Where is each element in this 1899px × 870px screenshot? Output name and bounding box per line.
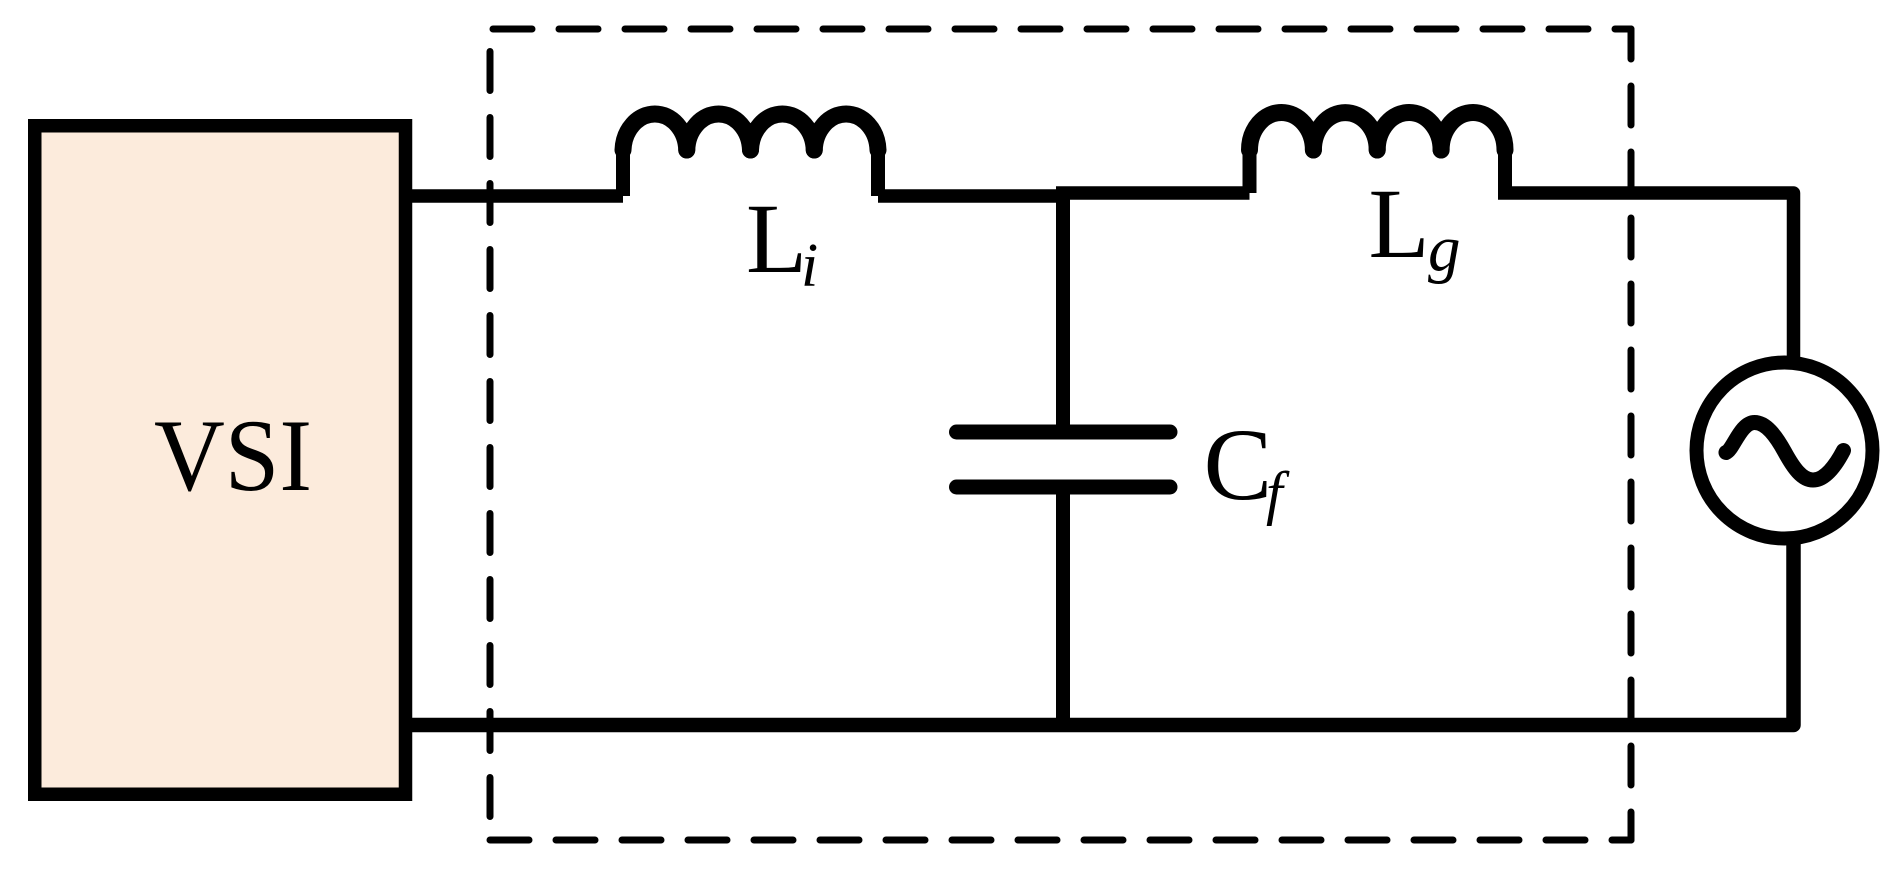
svg-text:i: i [801, 232, 818, 300]
svg-text:L: L [1369, 168, 1430, 279]
capacitor Cf bottom plate [957, 480, 1171, 495]
VSI box [35, 126, 406, 795]
wire: bottom rail from VSI to grid source [402, 538, 1794, 725]
inductor Lg humps [1250, 112, 1314, 150]
AC source sine symbol [1726, 423, 1844, 481]
inductor Lg right riser [1498, 150, 1512, 193]
dashed filter boundary box (bottom edge) [490, 837, 1631, 844]
svg-text:C: C [1204, 408, 1273, 522]
inductor Lg left riser [1243, 150, 1257, 193]
svg-text:f: f [1266, 460, 1290, 526]
inductor Li right riser [871, 150, 885, 196]
inductor Li humps [623, 114, 687, 150]
dashed filter boundary box (right edge) [1628, 29, 1635, 840]
capacitor Cf bottom lead [1056, 487, 1070, 725]
wire: Li to node A [878, 189, 1070, 203]
svg-text:L: L [746, 183, 807, 294]
capacitor Cf top plate [957, 425, 1171, 440]
dashed filter boundary box (top edge) [490, 26, 1631, 33]
dashed filter boundary box (left edge) [487, 52, 494, 819]
AC grid source circle [1697, 363, 1873, 539]
svg-text:VSI: VSI [154, 399, 312, 513]
wire: VSI top output to node A [402, 189, 623, 203]
wire: Lg to grid source (top right elbow) [1498, 193, 1794, 365]
capacitor Cf top lead [1056, 190, 1070, 432]
svg-text:g: g [1428, 213, 1461, 285]
wire: node A to inductor Lg [1056, 186, 1250, 200]
inductor Li left riser [616, 150, 630, 196]
